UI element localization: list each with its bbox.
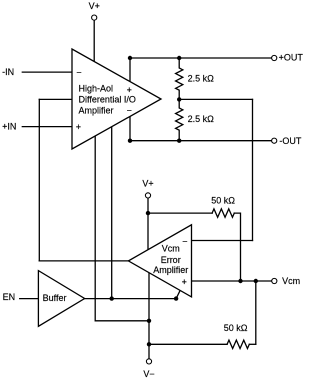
- junction bottom rail at output drop: [128, 139, 132, 143]
- wire buffer output: [84, 298, 177, 300]
- op-amp U2 Vcm Error Amplifier: [128, 225, 191, 297]
- svg-text:50 kΩ: 50 kΩ: [224, 323, 248, 333]
- wire Vcm amp V- down to V- terminal: [148, 272, 150, 359]
- svg-text:Vcm: Vcm: [282, 276, 300, 286]
- wire enable to Vcm amp: [176, 289, 181, 299]
- svg-text:High-Aol: High-Aol: [79, 84, 114, 94]
- buffer U3: [38, 271, 84, 327]
- junction V- line at main amp V-: [147, 319, 151, 323]
- junction top rail at output drop: [128, 56, 132, 60]
- wire -IN to main amp: [22, 71, 72, 73]
- wire midpoint sense vertical: [252, 99, 254, 240]
- svg-text:-IN: -IN: [2, 67, 14, 77]
- wire bottom rail to -OUT: [130, 140, 272, 142]
- junction R1-R2 midpoint: [177, 97, 181, 101]
- wire 50k top to Vcm node: [234, 213, 240, 281]
- svg-text:+IN: +IN: [2, 122, 16, 132]
- wire +OUT drop from main amp output: [129, 58, 131, 84]
- terminal -OUT: [272, 138, 277, 143]
- wire Vocm feedback vertical: [38, 99, 40, 261]
- svg-text:-OUT: -OUT: [279, 136, 301, 146]
- terminal V+ Vcm: [145, 193, 150, 198]
- junction bottom rail at R2: [177, 139, 181, 143]
- junction buffer output to main amp enable: [110, 296, 114, 300]
- wire Vcm amp plus input to Vcm pin: [192, 280, 272, 282]
- svg-text:Error: Error: [161, 255, 181, 265]
- wire EN input to buffer: [20, 298, 39, 300]
- wire 50k bottom left lead to V-: [149, 343, 227, 345]
- svg-text:Differential I/O: Differential I/O: [79, 95, 136, 105]
- wire 50k bottom right lead: [249, 343, 256, 345]
- svg-text:50 kΩ: 50 kΩ: [211, 196, 235, 206]
- svg-text:−: −: [182, 237, 187, 247]
- wire main amp enable drop: [111, 123, 113, 299]
- op-amp U1 High-Aol Differential I/O Amplifier: [72, 49, 161, 149]
- svg-text:V−: V−: [143, 369, 154, 379]
- terminal +OUT: [272, 55, 277, 60]
- wire top rail to +OUT: [130, 57, 272, 59]
- junction buffer output to Vcm amp enable: [174, 296, 178, 300]
- wire Vocm input to main amp: [39, 98, 72, 100]
- wire midpoint sense horizontal: [179, 98, 252, 100]
- wire 50k top left lead: [148, 212, 212, 214]
- terminal V+ main: [92, 15, 97, 20]
- svg-text:−: −: [76, 67, 81, 77]
- junction Vcm node at 50k bottom: [254, 279, 258, 283]
- resistor R4 50k bottom: [227, 340, 249, 348]
- wire +IN to main amp: [22, 126, 72, 128]
- svg-text:Amplifier: Amplifier: [79, 105, 114, 115]
- wire V+ supply to Vcm amp: [147, 198, 149, 251]
- junction V- line at 50k bottom: [147, 342, 151, 346]
- svg-text:−: −: [127, 105, 132, 115]
- svg-text:2.5 kΩ: 2.5 kΩ: [188, 73, 215, 83]
- svg-text:2.5 kΩ: 2.5 kΩ: [188, 114, 215, 124]
- svg-text:Vcm: Vcm: [162, 244, 180, 254]
- wire -OUT drop from main amp output: [129, 114, 131, 141]
- svg-text:V+: V+: [142, 179, 153, 189]
- svg-text:+: +: [76, 122, 81, 132]
- svg-text:+OUT: +OUT: [279, 53, 304, 63]
- junction top rail at R1: [177, 56, 181, 60]
- wire Vocm feedback horizontal from Vcm amp output: [39, 260, 129, 262]
- junction V+ at 50k top: [146, 211, 150, 215]
- svg-text:+: +: [182, 277, 187, 287]
- svg-text:Buffer: Buffer: [43, 293, 67, 303]
- wire main amp V- drop: [95, 133, 149, 321]
- terminal Vcm: [272, 278, 277, 283]
- resistor R2 2.5k bottom: [176, 99, 183, 140]
- svg-text:+: +: [127, 85, 132, 95]
- svg-text:EN: EN: [3, 292, 16, 302]
- svg-text:V+: V+: [89, 1, 100, 11]
- wire Vcm amp minus input: [192, 240, 253, 242]
- junction Vcm node at 50k top: [238, 279, 242, 283]
- resistor R1 2.5k top: [176, 58, 183, 99]
- svg-text:Amplifier: Amplifier: [153, 265, 188, 275]
- resistor R3 50k top: [212, 209, 234, 217]
- wire Vcm node down to 50k bottom: [255, 281, 257, 344]
- terminal V-: [146, 359, 151, 364]
- wire V+ supply to main amp: [93, 20, 95, 63]
